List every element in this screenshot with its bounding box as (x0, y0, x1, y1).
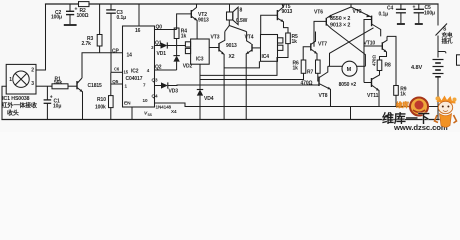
transistor VT2 9013 (177, 4, 198, 39)
svg-text:9013: 9013 (282, 9, 293, 15)
svg-text:Q3: Q3 (152, 77, 158, 82)
battery 4.8V (433, 60, 444, 77)
svg-text:M: M (347, 67, 352, 73)
resistor R9 1k to ground bus (394, 86, 399, 96)
svg-text:Q2: Q2 (155, 65, 162, 71)
wire Q5 pin1 to R10 column (111, 83, 123, 85)
svg-text:www.dzsc.com: www.dzsc.com (393, 123, 448, 132)
svg-text:9013 × 2: 9013 × 2 (330, 23, 350, 29)
svg-text:470Ω: 470Ω (372, 55, 377, 66)
svg-text:1k: 1k (181, 33, 187, 39)
svg-text:+: + (75, 7, 78, 13)
watermark round monkey logo (410, 98, 428, 116)
svg-text:C1815: C1815 (88, 83, 103, 89)
svg-text:+: + (50, 94, 53, 100)
svg-text:470Ω: 470Ω (301, 81, 313, 87)
svg-text:插孔: 插孔 (442, 37, 453, 45)
diode VD2 vertical 1N4148 (173, 46, 179, 71)
transistor VT11 8050 (364, 71, 380, 107)
transistor VT6 8550 (314, 18, 331, 47)
svg-text:IC4: IC4 (262, 54, 270, 60)
wire motor leads (328, 65, 366, 67)
resistor R6 1k (301, 60, 306, 73)
svg-text:2.7k: 2.7k (82, 41, 92, 47)
wire H-bridge apex from V+ rail (327, 4, 372, 18)
wire battery negative to ground rail (437, 77, 439, 120)
pin Vss wire to ground rail (131, 107, 133, 120)
svg-text:14: 14 (127, 53, 133, 59)
wire speaker split bracket to VT3 and VT4 collectors (219, 26, 251, 44)
wire VT10 collector node to R9 (387, 36, 396, 85)
wire base bus2 from VD3 to VT8 base (168, 84, 319, 87)
resistor R5 1k (286, 33, 291, 44)
svg-text:IC1 HS0038: IC1 HS0038 (2, 96, 29, 102)
svg-text:15: 15 (124, 69, 129, 74)
svg-text:1k: 1k (292, 39, 298, 45)
svg-text:8: 8 (240, 7, 243, 13)
wire Q0 from pin to R4/VT2 column (155, 29, 177, 31)
svg-text:EN: EN (124, 101, 131, 107)
resistor R8 470ohm (377, 60, 382, 71)
capacitor C1 10u electrolytic to ground (44, 86, 52, 119)
svg-text:R7: R7 (307, 69, 314, 75)
svg-text:VT3: VT3 (211, 34, 220, 40)
svg-text:2: 2 (31, 68, 34, 74)
diode VD4 1N4148 vertical (197, 89, 203, 91)
resistor (clipped at right edge) (457, 55, 460, 65)
svg-text:X4: X4 (171, 109, 177, 114)
svg-text:3: 3 (31, 81, 34, 87)
wire left vertical from top rail to IC1 pin2 (36, 4, 46, 70)
svg-text:4.8V: 4.8V (411, 65, 422, 71)
svg-text:9013: 9013 (198, 17, 209, 23)
wire VD1 cathode to junction node (167, 45, 185, 47)
IC4 music chip blob with right pads (261, 35, 283, 62)
IC1 HS0038 infrared receiver box (6, 64, 36, 94)
loudspeaker 8ohm 0.5W (227, 4, 239, 26)
svg-text:Q4: Q4 (152, 93, 158, 98)
svg-text:100Ω: 100Ω (77, 13, 89, 19)
switch S charging jack (436, 4, 448, 58)
svg-text:C04017: C04017 (126, 76, 143, 82)
wire CP node: VT1 collector to IC2 pin14 (82, 53, 123, 78)
ground bar under C5 (415, 23, 423, 25)
watermark monkey-king mascot (435, 96, 457, 128)
wire Q1 pin to VD1 (155, 45, 161, 47)
ground bar under C2 (64, 24, 77, 26)
transistor VT1 C1815 (77, 78, 83, 120)
wire R1 to VT1 base (68, 85, 77, 87)
svg-text:10μ: 10μ (53, 103, 61, 109)
motor M (342, 61, 357, 76)
transistor VT9 8550 (364, 16, 381, 83)
svg-text:1N4148: 1N4148 (156, 105, 172, 110)
charging jack contact hook (438, 52, 446, 54)
pin 16 wire to V+ rail (138, 4, 140, 26)
svg-text:56k: 56k (54, 80, 62, 86)
svg-text:VD3: VD3 (169, 88, 179, 94)
resistor R10 100k to ground (109, 72, 114, 119)
svg-text:+: + (413, 4, 416, 10)
transistor VT4 9013 (246, 44, 260, 120)
capacitor C4 0.1u decoupling with ground bar (396, 4, 406, 23)
svg-text:0.1μ: 0.1μ (379, 11, 389, 17)
IC3 music chip blob with left pads (185, 39, 209, 64)
svg-text:收头: 收头 (7, 109, 19, 117)
svg-text:Q5: Q5 (112, 79, 118, 84)
wire Q3 pin7 to VD3 (155, 85, 162, 87)
svg-text:1k: 1k (400, 92, 406, 98)
diode VD1 1N4148 (161, 42, 168, 48)
svg-text:Q0: Q0 (156, 24, 163, 30)
capacitor C3 0.1u from top rail to reset node (106, 4, 116, 72)
svg-text:充电: 充电 (442, 31, 453, 39)
svg-text:C6: C6 (114, 66, 120, 71)
diode VD3 1N4148 (161, 82, 168, 88)
svg-text:VT11: VT11 (367, 93, 379, 99)
IC U2: CD4017 counter box IC2 (123, 26, 155, 107)
capacitor C5 100u electrolytic with ground bar (414, 4, 424, 23)
svg-text:100μ: 100μ (424, 10, 435, 16)
svg-text:8050 ×2: 8050 ×2 (339, 82, 357, 88)
svg-text:VT8: VT8 (319, 93, 328, 99)
svg-text:VD1: VD1 (157, 51, 167, 57)
svg-text:维库: 维库 (396, 100, 409, 109)
svg-text:16: 16 (135, 28, 141, 34)
svg-text:VT4: VT4 (245, 34, 254, 40)
svg-text:VT7: VT7 (318, 42, 327, 48)
wire inner ground bus rail from Q4 step to battery column (155, 103, 439, 107)
svg-text:IC2: IC2 (131, 68, 139, 74)
capacitor C2 electrolytic 100u (66, 4, 74, 24)
svg-text:8550 × 2: 8550 × 2 (330, 16, 350, 22)
svg-text:100k: 100k (95, 105, 106, 111)
wire bottom ground rail (2, 119, 439, 121)
IR receiver circle-cross symbol (13, 71, 29, 87)
svg-text:X2: X2 (229, 54, 235, 60)
svg-text:0.1μ: 0.1μ (117, 15, 127, 21)
wire reset pin15 from C3/R10 column (111, 71, 123, 73)
svg-text:10: 10 (143, 98, 148, 103)
transistor VT8 8050 (319, 66, 331, 106)
wire cross diagonal A: VT6 collector to motor right node (331, 29, 365, 67)
svg-text:R10: R10 (97, 97, 106, 103)
svg-text:VT10: VT10 (364, 40, 376, 46)
wire IC1 pin3 to R1 (36, 85, 52, 87)
wire line2 from VD4 column to R5 chain (200, 44, 288, 76)
wire line1 VT3/VT4 emitters to IC4 bottom pin (224, 61, 259, 68)
wire cross diagonal B: VT9 collector to motor left node (330, 28, 374, 67)
svg-text:VT6: VT6 (314, 9, 323, 15)
resistor R3 2.7k vertical from top rail (97, 4, 102, 53)
resistor R4 1k from Q0 node to VD1 junction (174, 28, 179, 46)
wire left border from IC1 pin1 down to ground rail (2, 86, 6, 119)
resistor R7 470ohm (316, 60, 321, 73)
svg-text:1: 1 (9, 77, 12, 83)
wire base bus1 from VD4 column to R6 (200, 73, 304, 79)
svg-text:VT9: VT9 (353, 9, 362, 15)
svg-text:CP: CP (112, 48, 120, 54)
transistor VT7 9013 driver (303, 32, 317, 61)
wire Q2 pin4 to VD2 (155, 69, 177, 71)
svg-text:IC3: IC3 (196, 56, 204, 62)
svg-text:9013: 9013 (226, 43, 237, 49)
resistor R1 56k horizontal (52, 84, 68, 89)
transistor VT10 9013 driver (364, 36, 387, 60)
wire rail link between ground buses (350, 107, 352, 120)
svg-text:R8: R8 (385, 63, 392, 69)
svg-text:0.5W: 0.5W (236, 18, 248, 24)
resistor R2 100ohm on top rail (79, 2, 90, 7)
svg-text:VD4: VD4 (204, 96, 214, 102)
wire VD4 anode to ground rail (199, 96, 201, 120)
svg-text:1k: 1k (293, 65, 299, 71)
ground bar under C4 (397, 23, 405, 25)
wire IC3 bottom to VD4 (199, 64, 201, 89)
transistor VT5 9013 (261, 4, 288, 35)
svg-text:红外一体接收: 红外一体接收 (2, 102, 38, 110)
wire top V+ rail (46, 3, 79, 5)
transistor VT3 9013 (209, 43, 224, 120)
svg-text:100μ: 100μ (51, 15, 62, 21)
